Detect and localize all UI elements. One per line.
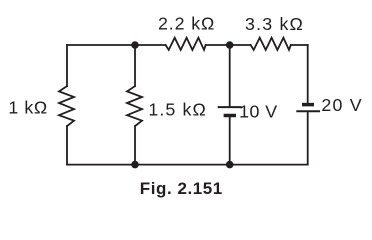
junction dot top node A: [131, 41, 139, 49]
battery 10 V positive plate (long thin): [218, 106, 242, 108]
wire right rail lower: [307, 112, 309, 164]
wire left rail lower: [66, 126, 68, 165]
resistor 2.2 kΩ body: [166, 38, 206, 50]
svg-text:Fig. 2.151: Fig. 2.151: [140, 179, 223, 198]
resistor 1.5 kΩ body: [127, 86, 142, 126]
resistor 3.3 kΩ body: [251, 38, 291, 50]
wire left rail upper: [66, 45, 68, 86]
wire right rail upper: [307, 45, 309, 103]
svg-text:2.2 kΩ: 2.2 kΩ: [158, 14, 215, 34]
battery 20 V positive plate (long thin): [296, 110, 320, 112]
resistor 1 kΩ body: [59, 86, 74, 126]
svg-text:1 kΩ: 1 kΩ: [8, 98, 47, 118]
wire branch node A upper: [134, 45, 136, 86]
junction dot bottom node B: [226, 161, 234, 169]
svg-text:10 V: 10 V: [239, 101, 278, 121]
wire top rail right segment: [291, 44, 308, 46]
battery 20 V negative plate (short thick): [302, 103, 314, 107]
svg-text:3.3 kΩ: 3.3 kΩ: [245, 14, 304, 34]
wire top rail left segment: [67, 44, 166, 46]
svg-text:1.5 kΩ: 1.5 kΩ: [148, 100, 206, 120]
junction dot top node B: [226, 41, 234, 49]
wire branch node A lower: [134, 126, 136, 165]
junction dot bottom node A: [131, 161, 139, 169]
wire bottom rail: [67, 164, 308, 166]
wire top rail middle segment: [206, 44, 251, 46]
wire branch node B upper: [229, 45, 231, 106]
svg-text:20 V: 20 V: [321, 95, 362, 115]
wire branch node B lower: [229, 117, 231, 164]
battery 10 V negative plate (short thick): [224, 114, 236, 118]
